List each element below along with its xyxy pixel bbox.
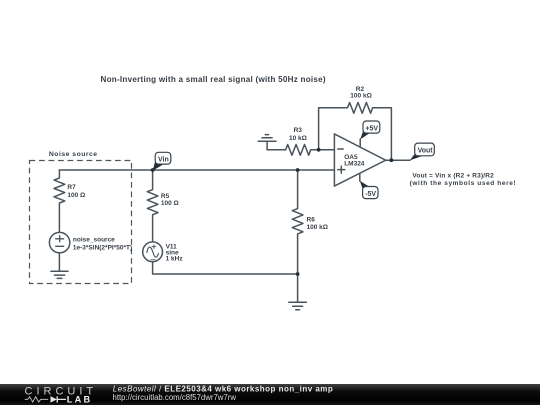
svg-text:Vout: Vout	[418, 148, 434, 155]
svg-text:1 kHz: 1 kHz	[166, 256, 184, 263]
svg-text:R5: R5	[161, 193, 170, 200]
svg-text:10 kΩ: 10 kΩ	[289, 135, 307, 142]
svg-text:LesBowtell / ELE2503&4 wk6 wor: LesBowtell / ELE2503&4 wk6 workshop non_…	[113, 384, 333, 393]
svg-text:(with the symbols used here!: (with the symbols used here!	[410, 180, 517, 187]
svg-text:LM324: LM324	[344, 161, 365, 168]
svg-text:1e-3*SIN(2*PI*50*T): 1e-3*SIN(2*PI*50*T)	[73, 244, 132, 251]
svg-text:Non-Inverting with a small rea: Non-Inverting with a small real signal (…	[101, 75, 326, 84]
svg-text:Vin: Vin	[158, 156, 169, 163]
svg-text:http://circuitlab.com/c8f57dwr: http://circuitlab.com/c8f57dwr7w7rw	[113, 393, 237, 402]
svg-text:100 kΩ: 100 kΩ	[350, 93, 371, 100]
svg-text:-5V: -5V	[365, 191, 376, 198]
svg-text:R6: R6	[307, 216, 316, 223]
svg-text:noise_source: noise_source	[73, 236, 115, 243]
svg-text:100 Ω: 100 Ω	[67, 192, 85, 199]
svg-text:100 Ω: 100 Ω	[161, 200, 179, 207]
svg-text:R7: R7	[67, 184, 76, 191]
svg-text:Vout = Vin x (R2 + R3)/R2: Vout = Vin x (R2 + R3)/R2	[412, 172, 494, 179]
svg-text:LAB: LAB	[67, 394, 92, 404]
svg-text:Noise source: Noise source	[49, 151, 98, 158]
svg-text:+5V: +5V	[365, 125, 378, 132]
svg-text:100 kΩ: 100 kΩ	[307, 224, 328, 231]
svg-text:R3: R3	[294, 127, 303, 134]
